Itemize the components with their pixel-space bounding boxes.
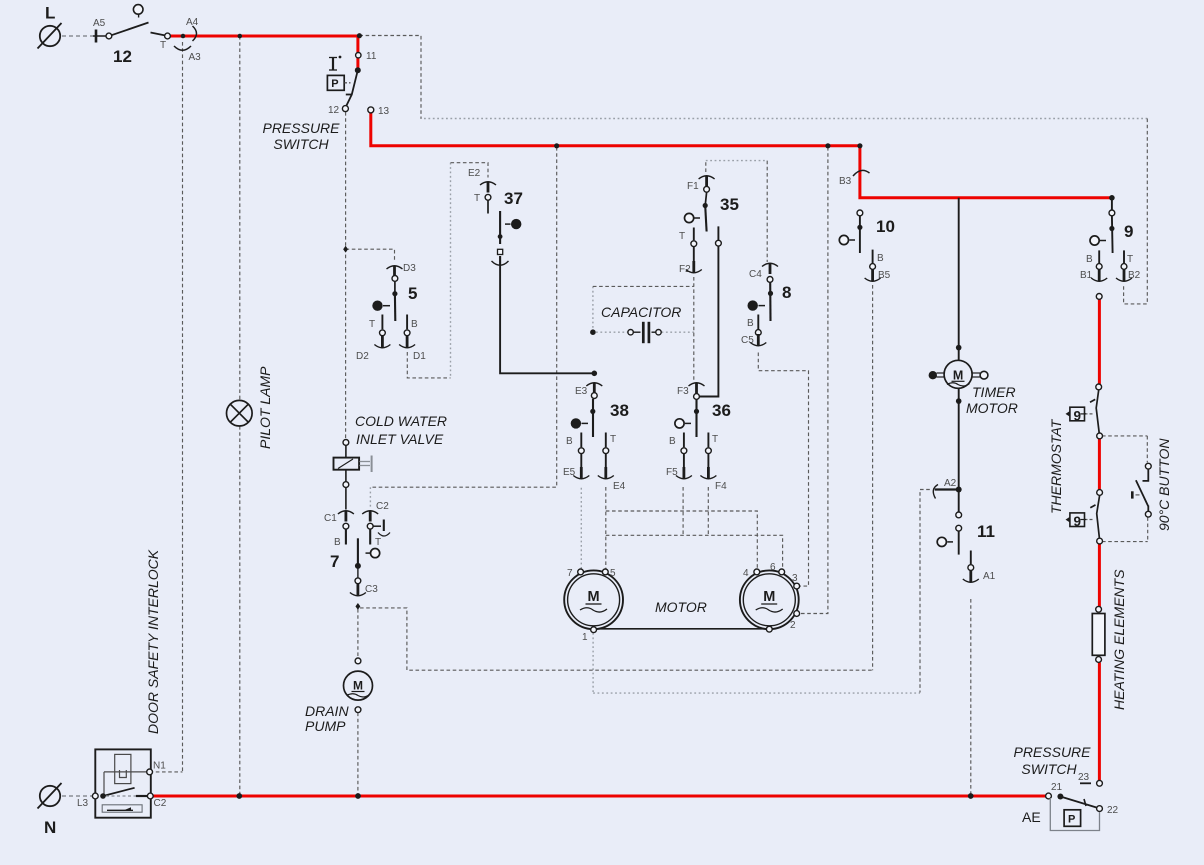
switch 10 lever xyxy=(859,216,861,253)
dotted wire E5 to motor terminal 7 xyxy=(580,488,582,569)
svg-text:B3: B3 xyxy=(839,176,852,187)
svg-text:DOOR SAFETY INTERLOCK: DOOR SAFETY INTERLOCK xyxy=(145,549,161,734)
switch 12 lever xyxy=(112,23,149,36)
AE P box xyxy=(1064,810,1081,827)
switch 37 travel square xyxy=(498,249,503,254)
dashed wire pilot lamp upper feed xyxy=(239,36,241,401)
switch 37 lever xyxy=(499,211,501,244)
door interlock lever xyxy=(103,788,135,796)
svg-text:THERMOSTAT: THERMOSTAT xyxy=(1048,418,1064,514)
svg-text:C2: C2 xyxy=(154,798,167,809)
red live wire between thermostats xyxy=(1098,439,1101,491)
switch 37 lever node xyxy=(498,234,503,239)
motor right terminal 4 xyxy=(754,569,760,575)
switch 37 pivot xyxy=(511,219,521,229)
svg-text:F1: F1 xyxy=(687,181,699,192)
motor right bottom contact xyxy=(766,626,772,632)
junction drain pump on neutral bus xyxy=(355,793,361,799)
90C button actuator xyxy=(1131,491,1134,498)
svg-text:B: B xyxy=(411,319,418,330)
svg-text:B: B xyxy=(747,318,754,329)
switch 36 lever node xyxy=(694,409,699,414)
timer motor feed node xyxy=(956,345,962,351)
svg-text:A4: A4 xyxy=(186,17,199,28)
dashed wire F2 to F3 xyxy=(693,277,695,381)
motor left terminal 1 xyxy=(591,627,597,633)
capacitor plates xyxy=(642,322,645,343)
svg-text:A1: A1 xyxy=(983,571,996,582)
svg-text:SWITCH: SWITCH xyxy=(273,136,329,152)
dashed wire C3 branch to drain pump enclosure xyxy=(360,608,873,670)
svg-text:L: L xyxy=(45,4,55,23)
svg-text:DRAIN: DRAIN xyxy=(305,703,349,719)
switch 9 pivot circle xyxy=(1090,236,1099,245)
dashed wire C3 to drain pump xyxy=(357,609,359,658)
pressure switch lever xyxy=(346,70,358,106)
svg-text:3: 3 xyxy=(792,573,798,584)
pressure switch corner node xyxy=(357,33,362,38)
svg-text:C4: C4 xyxy=(749,269,762,280)
capacitor left terminal xyxy=(628,330,633,335)
dashed wire node to switch 5 terminal D3 xyxy=(346,249,395,261)
svg-text:D1: D1 xyxy=(413,351,426,362)
svg-text:7: 7 xyxy=(330,552,339,571)
drain pump bottom contact xyxy=(355,707,361,713)
pressure switch P box xyxy=(327,75,344,90)
svg-text:7: 7 xyxy=(567,568,573,579)
90C button bottom contact xyxy=(1145,511,1151,517)
svg-text:36: 36 xyxy=(712,401,731,420)
svg-text:E2: E2 xyxy=(468,168,481,179)
switch 5 terminal D3 hook xyxy=(387,266,403,269)
timer motor left terminal xyxy=(929,371,937,379)
dashed switch 37 enclosure top xyxy=(451,163,489,178)
svg-text:B: B xyxy=(877,253,884,264)
svg-text:M: M xyxy=(763,589,775,605)
thermostat 2 lever xyxy=(1097,496,1100,539)
svg-text:PRESSURE: PRESSURE xyxy=(262,120,340,136)
inlet valve bottom contact xyxy=(345,470,347,482)
heating element top contact xyxy=(1096,606,1102,612)
svg-text:22: 22 xyxy=(1107,805,1119,816)
wire switch 35 output down to F3 xyxy=(700,226,719,396)
inlet valve coil xyxy=(345,445,347,457)
switch 35 terminal F1 hook xyxy=(699,176,715,179)
svg-text:P: P xyxy=(331,78,338,90)
svg-text:COLD WATER: COLD WATER xyxy=(355,413,447,429)
dotted wire motor terminal 1 down xyxy=(592,633,594,693)
svg-text:MOTOR: MOTOR xyxy=(966,400,1018,416)
switch 11 lever xyxy=(958,531,960,554)
dotted wire motor terminal 1 to switch 11 branch xyxy=(593,692,920,694)
switch 37 terminal E2 hook xyxy=(480,182,496,185)
drain pump top contact xyxy=(355,658,361,664)
switch 38 terminal E3 contact xyxy=(591,393,597,399)
svg-text:38: 38 xyxy=(610,401,629,420)
svg-text:B1: B1 xyxy=(1080,270,1093,281)
svg-text:TIMER: TIMER xyxy=(972,384,1016,400)
svg-text:5: 5 xyxy=(408,284,417,303)
dashed 90C button box top xyxy=(1102,435,1147,437)
svg-text:6: 6 xyxy=(770,562,776,573)
dotted bus line from pressure switch along top to right border xyxy=(424,118,1147,120)
svg-text:PILOT LAMP: PILOT LAMP xyxy=(257,366,273,449)
dashed wire A2 branch down to motor link xyxy=(920,490,930,693)
switch 12 terminal A5 stop bar xyxy=(95,30,98,43)
thermostat 2 top contact xyxy=(1097,490,1103,496)
door interlock dotted contact path xyxy=(106,795,136,797)
dotted lead from N to door interlock xyxy=(62,795,94,797)
svg-text:T: T xyxy=(610,434,616,445)
motor right terminal 3 xyxy=(794,583,800,589)
svg-text:T: T xyxy=(474,193,480,204)
terminal A4 bracket xyxy=(193,26,197,41)
dashed wire terminal D1 down and right xyxy=(407,352,450,378)
timer motor xyxy=(944,360,972,388)
door interlock enclosure xyxy=(95,749,151,817)
red live wire thermostat 2 to heating element xyxy=(1098,544,1101,607)
inlet valve plunger xyxy=(360,461,371,463)
svg-text:N: N xyxy=(44,818,56,837)
junction node red bus x828 xyxy=(825,143,830,148)
terminal A3 arc xyxy=(174,46,191,50)
switch 36 pivot circle xyxy=(675,419,684,428)
motor left stator xyxy=(564,570,623,629)
svg-text:9: 9 xyxy=(1074,514,1082,529)
dashed right border down to B2 xyxy=(1124,119,1148,304)
svg-text:T: T xyxy=(712,434,718,445)
switch 7 contact T tail xyxy=(369,529,371,544)
switch 12 fixed contact xyxy=(151,33,166,36)
svg-text:35: 35 xyxy=(720,195,739,214)
switch 5 pivot xyxy=(372,301,382,311)
dashed 90C button box right lower xyxy=(1147,517,1149,541)
svg-text:D3: D3 xyxy=(403,263,416,274)
dashed switch 35 enclosure top xyxy=(705,161,707,172)
motor right stator xyxy=(740,570,799,629)
dashed wire A3 / N1 vertical link xyxy=(182,42,184,772)
switch 8 terminal C4 hook xyxy=(762,263,778,266)
svg-text:B: B xyxy=(1086,254,1093,265)
svg-text:E3: E3 xyxy=(575,386,588,397)
svg-text:9: 9 xyxy=(1074,408,1082,423)
switch 9 feed node xyxy=(1109,195,1115,201)
svg-text:13: 13 xyxy=(378,106,390,117)
90C button lead xyxy=(1143,469,1149,481)
dashed wire link to motor terminal 6 xyxy=(606,535,783,568)
drain pump motor xyxy=(344,671,373,700)
contact 22 xyxy=(1097,806,1103,812)
switch 37 terminal T contact xyxy=(485,194,491,200)
svg-text:B: B xyxy=(334,537,341,548)
svg-text:PRESSURE: PRESSURE xyxy=(1013,744,1091,760)
capacitor right terminal xyxy=(652,331,656,333)
dotted drop from capacitor box corner to capacitor node xyxy=(592,286,594,330)
svg-text:12: 12 xyxy=(328,105,340,116)
dotted lead from L to switch 12 xyxy=(62,35,93,37)
svg-text:21: 21 xyxy=(1051,782,1063,793)
switch 5 lever xyxy=(394,294,396,321)
dashed wire B5 down xyxy=(872,285,874,670)
switch 9 top contact xyxy=(1109,210,1115,216)
switch 7 pivot circle xyxy=(371,549,380,558)
switch 11 pivot circle xyxy=(937,537,946,546)
svg-text:T: T xyxy=(160,40,166,51)
dashed wire pilot lamp lower feed xyxy=(239,426,241,795)
junction node red bus x556 xyxy=(554,143,559,148)
switch 36 terminal F3 hook xyxy=(689,383,705,386)
svg-text:5: 5 xyxy=(610,568,616,579)
red live wire from switch 12 to pressure switch contact 11 xyxy=(171,36,358,70)
svg-text:90°C BUTTON: 90°C BUTTON xyxy=(1156,438,1172,531)
red live wire heating element to contact 23 xyxy=(1098,663,1101,781)
dashed 90C button box right upper xyxy=(1146,436,1148,463)
switch 38 terminal E3 hook xyxy=(586,383,602,386)
door interlock pivot node xyxy=(100,793,106,799)
junction pilot lamp on neutral bus xyxy=(236,793,242,799)
dashed wire red bus drop to C2 terminal path xyxy=(371,147,557,487)
svg-text:CAPACITOR: CAPACITOR xyxy=(601,304,681,320)
switch 10 pivot circle xyxy=(839,235,848,244)
junction node on red bus at A3 xyxy=(181,34,186,39)
dashed wire C5 to motor terminal 3 xyxy=(758,353,808,587)
svg-text:A2: A2 xyxy=(944,478,957,489)
terminal A2 bar xyxy=(935,488,959,490)
switch 7 terminal C1 hook xyxy=(338,511,354,514)
junction node on contact 12 drop xyxy=(343,246,348,253)
svg-text:1: 1 xyxy=(582,632,588,643)
terminal A1 xyxy=(970,551,972,565)
svg-text:C3: C3 xyxy=(365,584,378,595)
dashed wire E4 to motor terminal 5 xyxy=(605,487,607,569)
svg-text:C2: C2 xyxy=(376,501,389,512)
svg-text:23: 23 xyxy=(1078,772,1090,783)
dashed capacitor box top edge xyxy=(593,285,694,287)
switch 7 contact B tail xyxy=(345,529,347,544)
contact 13 xyxy=(368,107,374,113)
svg-text:B: B xyxy=(669,436,676,447)
switch 36 lever xyxy=(695,400,697,438)
svg-text:SWITCH: SWITCH xyxy=(1021,761,1077,777)
dashed wire F5 drop xyxy=(682,487,684,535)
90C button top contact xyxy=(1145,463,1151,469)
terminal B1 lower contact xyxy=(1096,294,1102,300)
svg-text:4: 4 xyxy=(743,568,749,579)
motor left terminal 7 xyxy=(578,569,584,575)
door interlock inner link xyxy=(104,771,147,773)
svg-text:INLET VALVE: INLET VALVE xyxy=(356,431,444,447)
AE bracket xyxy=(1050,798,1099,831)
svg-text:B: B xyxy=(566,436,573,447)
dashed link thermostat 2 to lever xyxy=(1085,519,1093,521)
switch 8 lever node xyxy=(768,291,773,296)
svg-text:M: M xyxy=(353,679,363,693)
motor right terminal 6 xyxy=(779,569,785,575)
switch 37 bottom arc xyxy=(499,256,501,265)
dashed wire contact 12 down to inlet valve xyxy=(345,112,347,440)
switch 11 upper contact xyxy=(956,512,962,518)
switch 35 pivot circle xyxy=(685,213,694,222)
motor right terminal 2 xyxy=(794,611,800,617)
switch 7 lever xyxy=(357,538,359,566)
switch 9 lever xyxy=(1111,216,1114,253)
wire motor bottom link xyxy=(597,628,767,630)
dashed wire link to motor terminal 4 xyxy=(606,511,758,569)
svg-text:11: 11 xyxy=(977,522,995,541)
AE lever xyxy=(1060,797,1096,808)
svg-text:12: 12 xyxy=(113,47,132,66)
junction A1 on neutral bus xyxy=(968,793,974,799)
switch 38 lever xyxy=(592,399,594,437)
dashed wire red bus to motor terminal 2 xyxy=(800,147,828,614)
switch 12 output contact xyxy=(165,33,171,39)
switch 38 lever node xyxy=(590,409,595,414)
thermostat 2 body xyxy=(1070,513,1085,527)
svg-text:L3: L3 xyxy=(77,798,89,809)
dashed wire drain pump to neutral bus xyxy=(357,713,359,795)
svg-text:F5: F5 xyxy=(666,467,678,478)
red live wire B1 down to thermostat xyxy=(1098,299,1101,385)
door interlock fixed contact xyxy=(136,795,148,797)
contact 11 xyxy=(356,53,361,58)
red neutral bus wire xyxy=(153,795,1045,798)
phase terminal N xyxy=(38,783,62,809)
switch 10 top contact xyxy=(857,210,863,216)
thermostat 1 lever xyxy=(1096,390,1099,433)
svg-text:T: T xyxy=(375,537,381,548)
svg-text:P: P xyxy=(1068,814,1075,826)
svg-text:PUMP: PUMP xyxy=(305,718,346,734)
svg-text:D2: D2 xyxy=(356,351,369,362)
switch 9 lever node xyxy=(1109,226,1114,231)
heating element bottom contact xyxy=(1096,657,1102,663)
thermostat 2 bottom contact xyxy=(1097,538,1103,544)
switch 8 lever xyxy=(769,282,771,321)
door interlock solenoid xyxy=(115,754,131,783)
svg-text:T: T xyxy=(679,231,685,242)
switch 12 moving contact pivot xyxy=(106,33,112,39)
contact 21 xyxy=(1046,793,1052,799)
dashed wire red bus to enclosure corner 11 xyxy=(359,36,421,119)
switch 8 pivot xyxy=(748,300,758,310)
svg-text:2: 2 xyxy=(790,620,796,631)
node A2 xyxy=(956,487,962,493)
thermostat 1 bottom contact xyxy=(1097,433,1103,439)
svg-text:37: 37 xyxy=(504,189,523,208)
wire timer motor to A2 node xyxy=(958,388,960,512)
dotted wire C2 terminal drop xyxy=(369,487,371,508)
timer motor right terminal xyxy=(972,372,980,374)
svg-text:F2: F2 xyxy=(679,264,691,275)
svg-text:F3: F3 xyxy=(677,386,689,397)
door interlock latch xyxy=(102,805,142,812)
svg-text:M: M xyxy=(588,589,600,605)
svg-text:F4: F4 xyxy=(715,481,727,492)
svg-text:AE: AE xyxy=(1022,809,1041,825)
dashed wire A1 to neutral bus xyxy=(970,599,972,795)
svg-text:E4: E4 xyxy=(613,481,626,492)
switch 35 terminal F1 contact xyxy=(704,186,710,192)
switch 10 lever node xyxy=(857,225,862,230)
junction node red bus corner x860 xyxy=(857,143,862,148)
svg-text:9: 9 xyxy=(1124,222,1133,241)
terminal N1 xyxy=(147,769,153,775)
svg-text:A5: A5 xyxy=(93,18,106,29)
switch 5 upper node xyxy=(394,282,396,294)
svg-text:T: T xyxy=(1127,254,1133,265)
svg-text:HEATING ELEMENTS: HEATING ELEMENTS xyxy=(1111,569,1127,710)
pressure switch symbol I xyxy=(332,58,334,71)
AE lever pivot node xyxy=(1057,794,1063,800)
switch 5 terminal D3 contact xyxy=(392,276,398,282)
svg-text:T: T xyxy=(369,319,375,330)
svg-text:11: 11 xyxy=(366,51,377,62)
dashed wire N1 to vertical link xyxy=(150,771,183,773)
svg-text:N1: N1 xyxy=(153,761,166,772)
inlet valve top contact xyxy=(343,440,349,446)
dotted wire capacitor right lead to switch 35 output wire xyxy=(662,331,697,333)
red live wire from contact 13 across and down to switches 10 and 9 xyxy=(371,113,1112,198)
svg-text:A3: A3 xyxy=(189,52,202,63)
dashed wire F4 drop xyxy=(707,487,709,535)
pilot lamp xyxy=(227,400,253,426)
switch 7 to C3 xyxy=(357,568,359,578)
switch 12 actuator circle xyxy=(133,5,143,15)
thermostat 1 body xyxy=(1070,407,1085,421)
90C button lever xyxy=(1136,480,1148,506)
svg-text:M: M xyxy=(953,369,963,383)
switch 11 lower contact xyxy=(956,525,962,531)
switch 7 terminal C2 hook xyxy=(362,511,378,514)
phase terminal L xyxy=(38,23,62,49)
switch 36 terminal F3 contact xyxy=(694,394,700,400)
svg-text:MOTOR: MOTOR xyxy=(655,599,707,615)
svg-text:8: 8 xyxy=(782,283,791,302)
terminal L3 xyxy=(92,793,98,799)
timer motor lower node xyxy=(956,398,962,404)
dotted wire capacitor left lead xyxy=(596,331,628,333)
terminal C2 interlock xyxy=(147,793,153,799)
node C3 xyxy=(355,603,360,610)
motor left terminal 5 xyxy=(602,569,608,575)
dashed 90C button box bottom xyxy=(1102,541,1148,543)
capacitor node xyxy=(590,329,596,335)
switch 8 terminal C4 contact xyxy=(767,277,773,283)
switch 7 C2 side bar xyxy=(373,525,381,527)
heating element body xyxy=(1092,614,1105,656)
dashed link thermostat 1 to lever xyxy=(1085,413,1093,415)
svg-text:C1: C1 xyxy=(324,513,337,524)
svg-text:10: 10 xyxy=(876,217,895,236)
dotted left edge of switch 37 enclosure xyxy=(450,163,452,378)
junction node on red bus at pilot lamp branch xyxy=(238,34,243,39)
contact 12 xyxy=(342,106,348,112)
switch 35 lever xyxy=(705,206,706,232)
switch 38 pivot xyxy=(571,418,581,428)
switch 7 lever end node xyxy=(355,563,361,569)
90C button lower lead xyxy=(1147,506,1149,512)
switch 35 upper node xyxy=(705,192,706,205)
contact on switch 35 output wire xyxy=(716,240,722,246)
thermostat 1 top contact xyxy=(1096,384,1102,390)
wire live bus to timer motor xyxy=(958,198,960,360)
svg-text:E5: E5 xyxy=(563,467,576,478)
node E3 xyxy=(592,371,598,377)
wire switch 37 output to node E3 xyxy=(500,265,594,373)
pressure switch lever pivot node xyxy=(355,67,361,73)
